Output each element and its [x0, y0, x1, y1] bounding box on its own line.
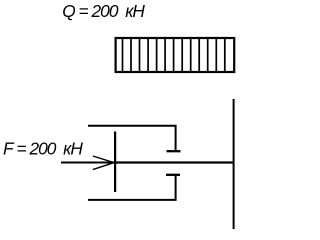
- distributed load Q hatched rectangle: [116, 38, 235, 72]
- svg-text:Q = 200 кН: Q = 200 кН: [62, 1, 145, 21]
- bottom stop cap: [166, 174, 180, 176]
- force F arrowhead lower barb: [93, 163, 114, 170]
- right wall vertical line: [233, 99, 235, 229]
- svg-text:F = 200 кН: F = 200 кН: [3, 138, 83, 158]
- top stop cap: [167, 150, 181, 152]
- force F arrowhead upper barb: [93, 156, 114, 162]
- rod horizontal line: [113, 161, 234, 163]
- force F arrow shaft: [61, 162, 113, 164]
- bottom guide rail: [88, 176, 176, 200]
- top guide rail: [88, 126, 176, 150]
- piston plate vertical line: [114, 132, 116, 193]
